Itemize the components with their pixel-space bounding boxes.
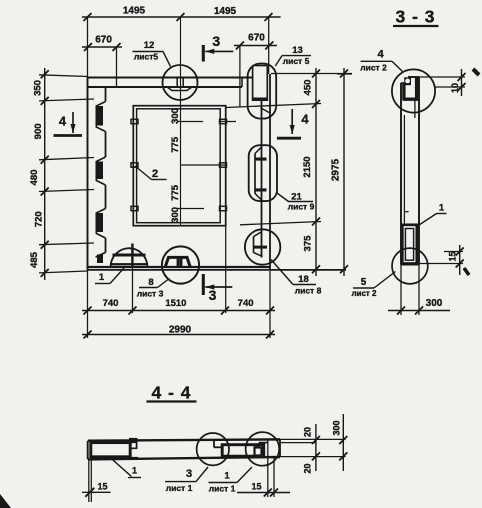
svg-text:1495: 1495 bbox=[123, 6, 146, 17]
svg-text:8: 8 bbox=[148, 277, 153, 288]
svg-text:лист 2: лист 2 bbox=[360, 63, 387, 73]
svg-text:лист5: лист5 bbox=[134, 52, 159, 62]
svg-text:18: 18 bbox=[298, 274, 309, 285]
svg-text:4: 4 bbox=[301, 112, 309, 127]
svg-text:2150: 2150 bbox=[302, 156, 313, 177]
svg-text:лист 1: лист 1 bbox=[209, 484, 236, 494]
svg-text:1: 1 bbox=[99, 272, 105, 283]
svg-text:4 - 4: 4 - 4 bbox=[151, 383, 191, 403]
svg-text:720: 720 bbox=[33, 211, 44, 227]
svg-text:2: 2 bbox=[152, 168, 158, 180]
svg-text:1: 1 bbox=[224, 471, 230, 482]
svg-text:740: 740 bbox=[238, 298, 254, 309]
svg-text:775: 775 bbox=[170, 136, 181, 153]
svg-text:3 - 3: 3 - 3 bbox=[395, 7, 435, 27]
svg-text:1: 1 bbox=[439, 203, 445, 214]
svg-text:375: 375 bbox=[303, 235, 314, 252]
svg-text:4: 4 bbox=[59, 114, 67, 129]
svg-text:20: 20 bbox=[303, 463, 313, 473]
svg-text:485: 485 bbox=[29, 251, 40, 268]
svg-text:300: 300 bbox=[426, 298, 443, 309]
svg-text:3: 3 bbox=[212, 33, 220, 49]
svg-text:1495: 1495 bbox=[214, 6, 237, 17]
svg-text:лист 3: лист 3 bbox=[137, 289, 164, 299]
svg-text:3: 3 bbox=[209, 287, 217, 303]
svg-text:4: 4 bbox=[377, 49, 384, 61]
svg-text:5: 5 bbox=[361, 277, 367, 288]
svg-text:300: 300 bbox=[170, 207, 181, 223]
svg-text:670: 670 bbox=[248, 33, 265, 44]
svg-text:900: 900 bbox=[33, 123, 44, 139]
svg-text:2975: 2975 bbox=[331, 158, 342, 181]
svg-text:1: 1 bbox=[132, 466, 138, 477]
svg-text:10: 10 bbox=[450, 83, 460, 93]
svg-text:740: 740 bbox=[103, 298, 119, 309]
svg-text:3: 3 bbox=[186, 468, 192, 480]
svg-text:лист 9: лист 9 bbox=[288, 202, 315, 212]
svg-text:450: 450 bbox=[303, 80, 314, 96]
svg-text:20: 20 bbox=[303, 427, 313, 437]
svg-text:15: 15 bbox=[251, 482, 261, 492]
svg-text:лист 8: лист 8 bbox=[295, 286, 322, 296]
svg-text:350: 350 bbox=[33, 80, 44, 96]
svg-text:15: 15 bbox=[97, 482, 107, 492]
svg-text:670: 670 bbox=[95, 35, 112, 46]
svg-text:1510: 1510 bbox=[165, 298, 186, 309]
svg-text:15: 15 bbox=[448, 251, 458, 261]
svg-text:480: 480 bbox=[29, 170, 40, 186]
svg-text:300: 300 bbox=[170, 108, 181, 124]
svg-text:13: 13 bbox=[292, 45, 303, 56]
svg-text:лист 5: лист 5 bbox=[283, 56, 310, 66]
svg-text:2990: 2990 bbox=[169, 325, 192, 336]
svg-text:лист 2: лист 2 bbox=[351, 289, 377, 298]
svg-text:лист 1: лист 1 bbox=[166, 483, 193, 493]
svg-text:300: 300 bbox=[331, 420, 341, 435]
svg-text:775: 775 bbox=[170, 184, 181, 201]
svg-text:12: 12 bbox=[144, 40, 155, 51]
